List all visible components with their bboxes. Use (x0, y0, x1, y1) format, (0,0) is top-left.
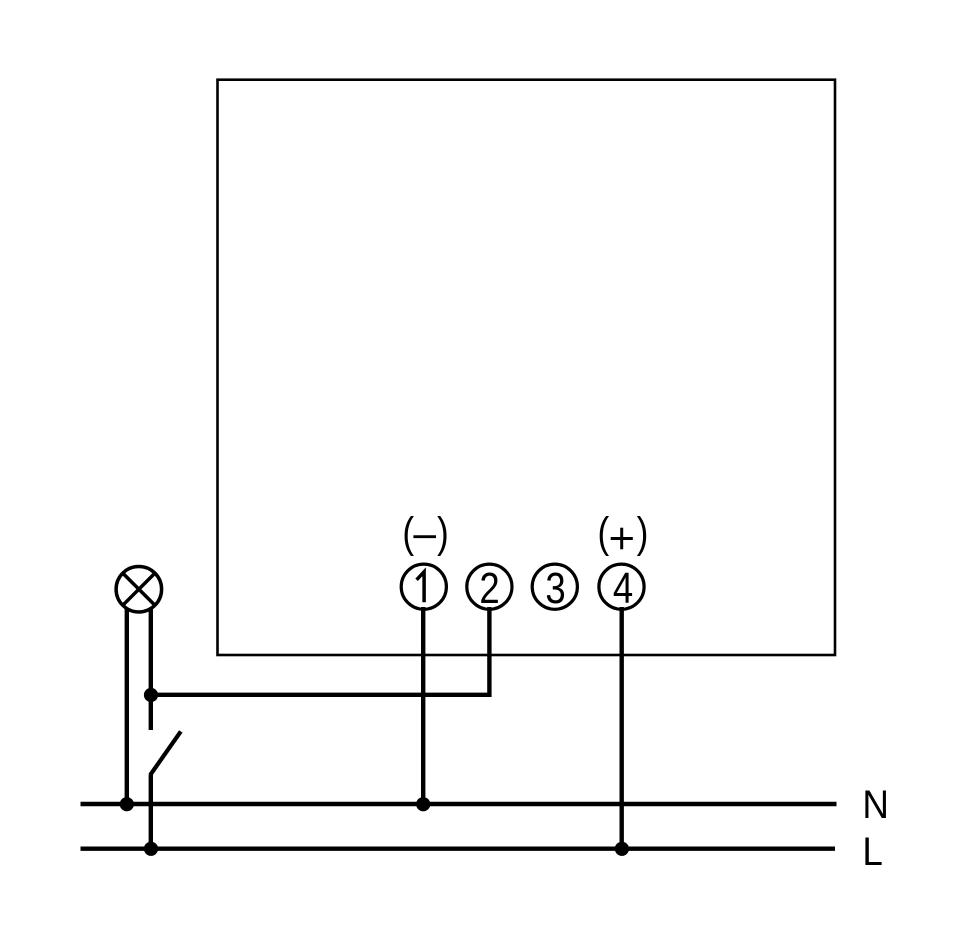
wire: lamp left lead down to N (125, 608, 129, 804)
node: terminal 1 wire on N (416, 797, 430, 811)
svg-text:3: 3 (545, 563, 565, 613)
svg-text:2: 2 (479, 563, 499, 613)
wire: switch bottom down to L (149, 775, 153, 849)
node: terminal 4 wire on L (615, 842, 629, 856)
svg-text:(: ( (402, 510, 414, 557)
svg-text:L: L (862, 830, 882, 875)
wire: junction to terminal 2 (horizontal then up) (151, 607, 489, 695)
svg-text:4: 4 (613, 563, 633, 613)
svg-text:N: N (862, 783, 889, 828)
terminal 1 (401, 564, 446, 609)
switch S1 (150, 695, 181, 775)
terminal 3 (532, 563, 577, 613)
label (+) above terminal 4 (598, 510, 649, 557)
wire: terminal 4 down to L (620, 607, 624, 849)
N line (81, 802, 837, 806)
label (-) above terminal 1 (402, 510, 448, 557)
L line (81, 847, 836, 851)
wire: lamp right lead down to junction (149, 608, 153, 695)
svg-text:): ) (437, 510, 449, 557)
terminal 4 (599, 563, 644, 613)
terminal 2 (467, 563, 512, 613)
wire: terminal 1 down to N (421, 607, 425, 804)
svg-text:(: ( (598, 510, 610, 557)
svg-text:): ) (637, 510, 649, 557)
node: lamp/switch junction (144, 688, 158, 702)
lamp E1 (116, 566, 162, 612)
device outline (control unit box) (218, 80, 836, 655)
node: switch wire on L (144, 842, 158, 856)
node: lamp lead on N (120, 797, 134, 811)
